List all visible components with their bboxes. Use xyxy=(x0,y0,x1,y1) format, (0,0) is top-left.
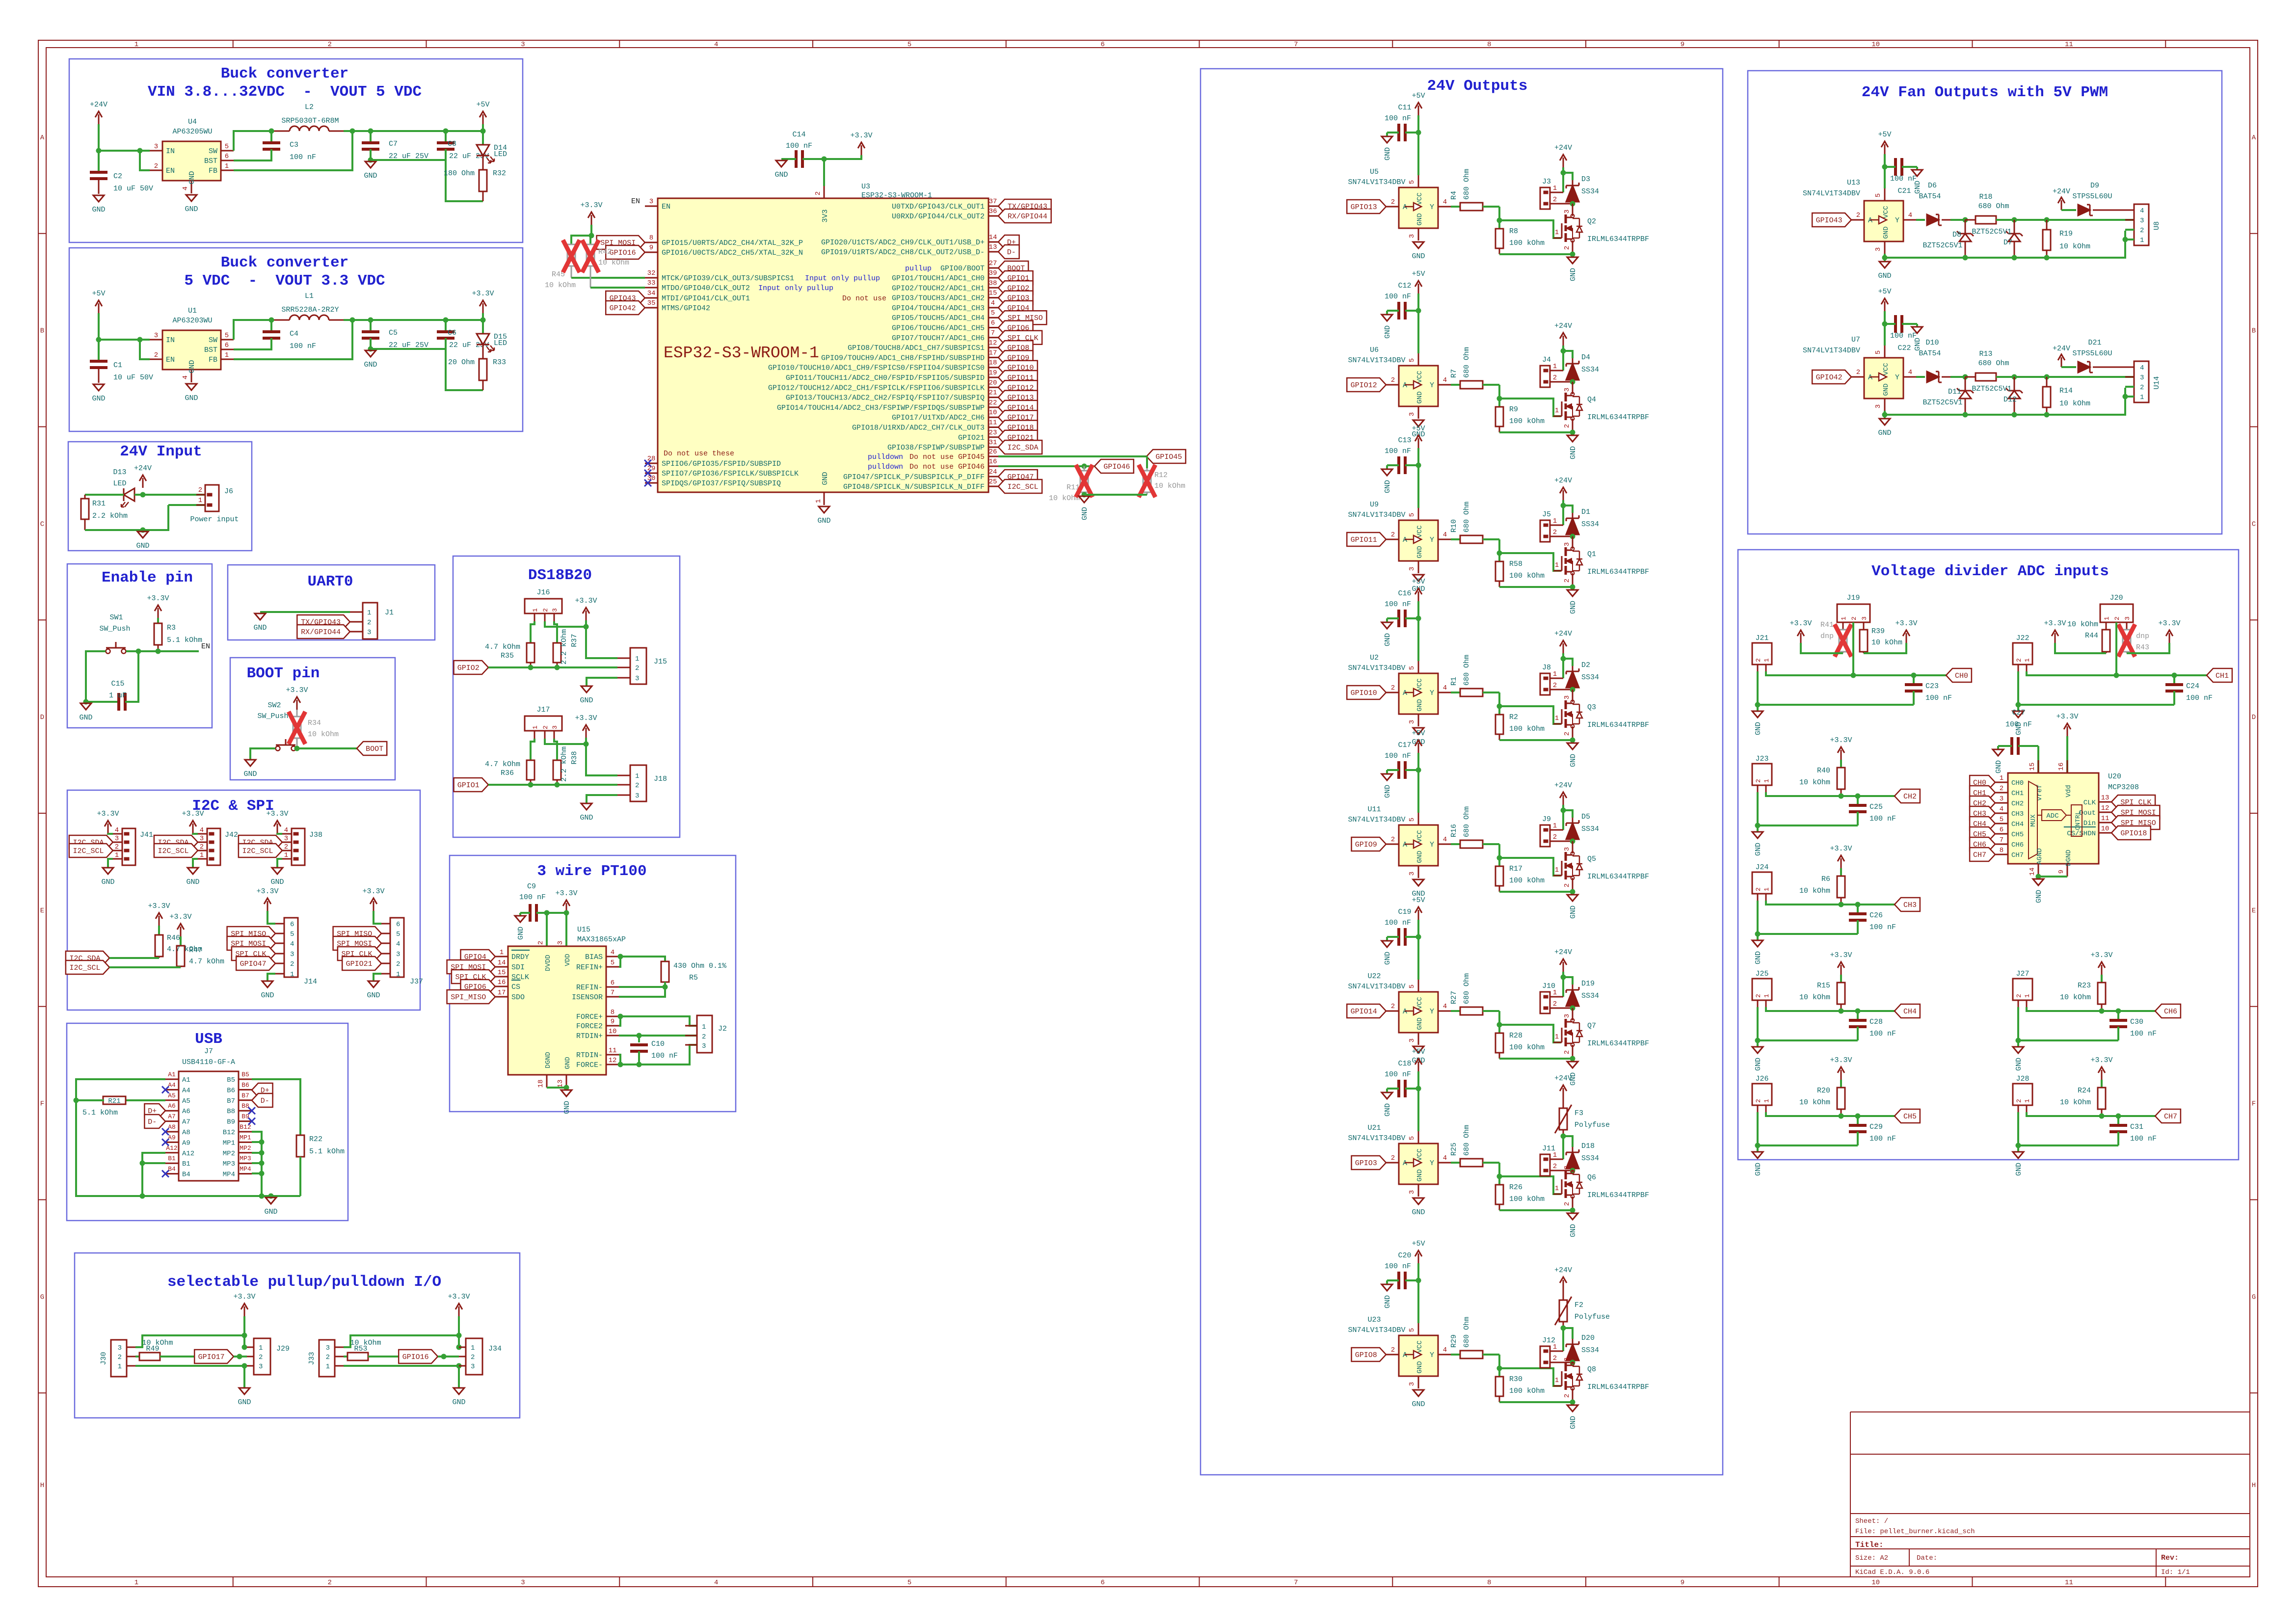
svg-text:File: pellet_burner.kicad_sch: File: pellet_burner.kicad_sch xyxy=(1855,1528,1975,1536)
global label I2C_SCL xyxy=(998,479,1042,493)
svg-text:SW_Push: SW_Push xyxy=(99,625,130,633)
power flag +3.3V xyxy=(458,1306,460,1316)
svg-text:R4: R4 xyxy=(1450,191,1458,200)
ground xyxy=(1413,420,1424,426)
wire xyxy=(1417,293,1419,353)
svg-text:A: A xyxy=(1403,381,1407,390)
svg-text:R41: R41 xyxy=(1820,621,1834,629)
svg-text:GPIO10/TOUCH10/ADC1_CH9/FSPICS: GPIO10/TOUCH10/ADC1_CH9/FSPICS0/FSPIIO4/… xyxy=(768,364,985,372)
svg-text:ADC: ADC xyxy=(2046,812,2058,820)
ground xyxy=(272,868,283,874)
junction xyxy=(637,1033,642,1038)
svg-text:R21: R21 xyxy=(108,1097,120,1105)
svg-text:2: 2 xyxy=(1755,887,1762,891)
junction xyxy=(1570,1208,1575,1213)
regulator U1 xyxy=(162,330,221,370)
pin 12 GPIO8 xyxy=(988,347,998,348)
wire gnd rail xyxy=(1885,388,2125,415)
connector J2 xyxy=(697,1015,712,1053)
svg-text:10 kOhm: 10 kOhm xyxy=(1799,778,1830,787)
svg-text:1: 1 xyxy=(471,1344,475,1352)
junction xyxy=(822,157,827,162)
pulldown resistor R11 dnp xyxy=(1084,466,1085,471)
svg-text:5: 5 xyxy=(1874,350,1882,354)
svg-text:C9: C9 xyxy=(527,882,536,891)
power flag +3.3V xyxy=(296,700,298,710)
global label SPI_MOSI xyxy=(333,936,381,950)
svg-text:J4: J4 xyxy=(1542,356,1551,364)
wire xyxy=(109,957,159,959)
svg-text:R6: R6 xyxy=(1821,875,1830,883)
pin 11 GPIO18 xyxy=(988,426,998,428)
connector J14 xyxy=(284,918,298,977)
regulator U4 xyxy=(162,141,221,181)
global label CH0 xyxy=(1946,668,1972,682)
svg-text:1: 1 xyxy=(1763,658,1770,662)
svg-text:GPIO17/U1TXD/ADC2_CH6: GPIO17/U1TXD/ADC2_CH6 xyxy=(892,414,985,422)
svg-text:3: 3 xyxy=(1861,616,1868,620)
svg-text:17: 17 xyxy=(498,989,506,997)
svg-text:GND: GND xyxy=(1569,1416,1577,1429)
diode D21 STPS5L60U xyxy=(2078,362,2090,372)
svg-text:GPIO20/U1CTS/ADC2_CH9/CLK_OUT1: GPIO20/U1CTS/ADC2_CH9/CLK_OUT1/USB_D+ xyxy=(821,239,985,247)
svg-text:+5V: +5V xyxy=(1878,131,1891,139)
svg-text:2: 2 xyxy=(1553,374,1557,382)
svg-text:GPIO7/TOUCH7/ADC1_CH6: GPIO7/TOUCH7/ADC1_CH6 xyxy=(892,334,985,343)
svg-text:D5: D5 xyxy=(1581,813,1590,821)
svg-text:C3: C3 xyxy=(290,141,298,149)
svg-text:10 kOhm: 10 kOhm xyxy=(2060,1098,2091,1107)
svg-text:2: 2 xyxy=(1850,616,1858,620)
svg-text:1: 1 xyxy=(532,725,539,729)
global label D- xyxy=(252,1093,273,1107)
junction xyxy=(1416,616,1421,621)
wire xyxy=(2018,1007,2118,1040)
svg-text:SN74LV1T34DBV: SN74LV1T34DBV xyxy=(1348,511,1405,519)
junction xyxy=(1570,889,1575,895)
ground xyxy=(565,1088,567,1090)
svg-text:2: 2 xyxy=(259,1354,263,1361)
global label RX/GPIO44 xyxy=(998,209,1051,223)
mosfet Q4 IRLML6344TRPBF xyxy=(1572,382,1574,394)
wire xyxy=(368,1356,399,1357)
wire xyxy=(1417,920,1419,980)
power flag +24V xyxy=(142,478,144,488)
svg-text:MCP3208: MCP3208 xyxy=(2108,783,2139,792)
svg-text:2: 2 xyxy=(1755,994,1762,998)
wire xyxy=(1563,659,1573,666)
svg-text:5: 5 xyxy=(908,1579,911,1587)
svg-text:D: D xyxy=(40,714,44,721)
svg-text:U6: U6 xyxy=(1370,346,1379,354)
svg-text:25: 25 xyxy=(989,478,997,486)
svg-text:7: 7 xyxy=(1294,41,1298,49)
svg-text:C15: C15 xyxy=(111,680,124,688)
wire xyxy=(252,1132,262,1196)
connector J1 xyxy=(363,603,377,639)
svg-text:U14: U14 xyxy=(2153,376,2161,389)
svg-text:1: 1 xyxy=(1555,1185,1559,1193)
svg-text:GPIO47/SPICLK_P/SUBSPICLK_P_DI: GPIO47/SPICLK_P/SUBSPICLK_P_DIFF xyxy=(843,473,985,481)
svg-text:3: 3 xyxy=(118,1344,122,1352)
ground xyxy=(1386,133,1388,136)
svg-text:11: 11 xyxy=(609,1047,617,1055)
svg-text:100 nF: 100 nF xyxy=(2005,720,2032,729)
resistor R24 10 kOhm xyxy=(2101,1080,2103,1088)
svg-text:SRR5228A-2R2Y: SRR5228A-2R2Y xyxy=(281,306,339,314)
no-connect crosses xyxy=(162,1086,169,1093)
svg-text:R32: R32 xyxy=(493,169,506,178)
svg-text:R47: R47 xyxy=(189,946,202,955)
svg-text:GPIO1/TOUCH1/ADC1_CH0: GPIO1/TOUCH1/ADC1_CH0 xyxy=(892,274,985,283)
pin 7 ISENSOR xyxy=(606,996,619,998)
svg-text:3: 3 xyxy=(1408,234,1416,238)
connector J38 xyxy=(292,828,305,865)
no-connect xyxy=(644,460,651,467)
svg-text:R53: R53 xyxy=(354,1345,367,1353)
global label CH3 xyxy=(1895,898,1920,911)
wire xyxy=(374,974,381,981)
svg-text:A9: A9 xyxy=(168,1134,176,1141)
svg-text:IRLML6344TRPBF: IRLML6344TRPBF xyxy=(1587,721,1649,729)
wire xyxy=(234,1356,247,1357)
svg-text:A: A xyxy=(2252,134,2256,142)
svg-text:3: 3 xyxy=(1408,1190,1416,1194)
svg-text:Q5: Q5 xyxy=(1587,855,1596,863)
svg-text:AP63203WU: AP63203WU xyxy=(172,317,212,325)
svg-text:1: 1 xyxy=(290,971,294,979)
global label SPI_MOSI xyxy=(597,236,645,249)
wire xyxy=(586,738,617,775)
svg-text:680 Ohm: 680 Ohm xyxy=(1463,347,1471,378)
svg-text:4: 4 xyxy=(611,949,614,957)
ground xyxy=(1413,575,1424,581)
power flag +5V xyxy=(1418,106,1419,115)
svg-text:17: 17 xyxy=(989,349,997,357)
svg-text:A: A xyxy=(1403,1351,1407,1359)
svg-text:100 nF: 100 nF xyxy=(519,893,546,902)
svg-text:11: 11 xyxy=(989,419,997,427)
svg-text:R20: R20 xyxy=(1817,1087,1830,1095)
wire xyxy=(2038,876,2067,878)
wire xyxy=(1498,207,1500,220)
svg-text:3V3: 3V3 xyxy=(821,209,829,222)
svg-text:15: 15 xyxy=(2029,763,2036,771)
svg-text:10 uF 50V: 10 uF 50V xyxy=(113,185,153,193)
ground xyxy=(262,981,273,987)
svg-text:GPIO42: GPIO42 xyxy=(1816,373,1842,382)
wire xyxy=(2061,209,2076,211)
resistor R25 680 Ohm xyxy=(1451,1162,1460,1164)
junction xyxy=(2116,1009,2121,1014)
svg-text:R13: R13 xyxy=(1979,350,1992,358)
wire GPIO46 net xyxy=(998,465,1084,467)
svg-text:10 kOhm: 10 kOhm xyxy=(2059,242,2090,251)
global label SPI_CLK xyxy=(452,970,495,984)
svg-text:BZT52C5V1: BZT52C5V1 xyxy=(1972,228,2011,236)
svg-text:GPIO13: GPIO13 xyxy=(1351,203,1377,212)
wire xyxy=(446,160,483,201)
wire xyxy=(2037,746,2039,773)
svg-text:5: 5 xyxy=(290,931,294,938)
svg-text:B6: B6 xyxy=(227,1087,235,1094)
svg-text:1: 1 xyxy=(635,772,639,780)
wire xyxy=(371,348,446,350)
global label SPI_MISO xyxy=(447,990,495,1004)
wire xyxy=(277,833,282,834)
pin 15 SCLK xyxy=(495,976,508,978)
wire xyxy=(1498,1163,1500,1176)
svg-text:SS34: SS34 xyxy=(1581,1154,1599,1163)
capacitor C5 xyxy=(370,320,372,331)
svg-text:GND: GND xyxy=(253,624,267,632)
junction xyxy=(1855,902,1861,907)
svg-text:Q3: Q3 xyxy=(1587,703,1596,712)
svg-text:2: 2 xyxy=(1391,376,1395,384)
power flag +3.3V xyxy=(180,927,182,936)
junction xyxy=(140,1161,145,1166)
svg-text:3: 3 xyxy=(1408,412,1416,416)
svg-text:A: A xyxy=(1403,1159,1407,1168)
svg-text:1: 1 xyxy=(1553,822,1557,830)
ground xyxy=(581,686,592,692)
svg-text:+3.3V: +3.3V xyxy=(147,594,169,603)
pin 20 GPIO12 xyxy=(988,387,998,388)
svg-text:MP1: MP1 xyxy=(223,1139,235,1147)
wire xyxy=(1417,1263,1419,1323)
svg-text:GND: GND xyxy=(2015,1163,2023,1176)
wire xyxy=(296,747,357,749)
wire xyxy=(140,151,150,170)
power flag +24V xyxy=(1563,962,1564,972)
pin 32 MTCK xyxy=(645,277,658,279)
junction xyxy=(584,742,589,747)
global label CH7 xyxy=(2155,1109,2181,1123)
svg-text:SN74LV1T34DBV: SN74LV1T34DBV xyxy=(1348,1134,1405,1143)
junction xyxy=(242,1363,247,1369)
power flag +24V xyxy=(1563,336,1564,346)
svg-text:2: 2 xyxy=(1553,196,1557,204)
junction xyxy=(1855,794,1861,799)
svg-text:32: 32 xyxy=(647,269,656,277)
svg-text:SN74LV1T34DBV: SN74LV1T34DBV xyxy=(1348,356,1405,365)
pin 11 RTDIN- xyxy=(606,1054,619,1056)
svg-text:J2: J2 xyxy=(718,1025,727,1033)
svg-text:100 nF: 100 nF xyxy=(651,1052,678,1060)
svg-text:3: 3 xyxy=(1563,1357,1571,1361)
svg-text:18: 18 xyxy=(989,359,997,367)
junction xyxy=(555,782,560,788)
svg-text:2: 2 xyxy=(1856,369,1860,376)
pin 3 CH2 xyxy=(1995,802,2008,804)
svg-text:2: 2 xyxy=(635,782,639,790)
svg-text:4: 4 xyxy=(396,940,400,948)
svg-text:Y: Y xyxy=(1430,203,1434,212)
svg-text:EN: EN xyxy=(166,356,175,364)
pin 23 GPIO21 xyxy=(988,436,998,438)
capacitor C24 100 nF xyxy=(2173,675,2175,684)
svg-text:GPIO11: GPIO11 xyxy=(1351,536,1377,544)
capacitor C30 100 nF xyxy=(2117,1011,2119,1020)
svg-text:GND: GND xyxy=(1754,722,1762,735)
svg-text:4: 4 xyxy=(182,186,189,190)
svg-text:VCC: VCC xyxy=(1416,192,1424,205)
wire xyxy=(1572,240,1574,254)
svg-text:100 nF: 100 nF xyxy=(2130,1135,2157,1143)
svg-text:2: 2 xyxy=(2015,1099,2023,1103)
svg-text:C11: C11 xyxy=(1398,104,1411,112)
section box BOOT pin xyxy=(230,658,395,780)
resistor R28 100 kOhm xyxy=(1498,1025,1500,1033)
svg-text:2: 2 xyxy=(2015,658,2023,662)
svg-text:1: 1 xyxy=(115,851,119,859)
connector J37 xyxy=(390,918,404,977)
svg-text:5: 5 xyxy=(908,41,911,49)
svg-text:C21: C21 xyxy=(1897,187,1911,195)
svg-text:1: 1 xyxy=(225,162,229,170)
svg-text:R35: R35 xyxy=(501,652,514,660)
svg-text:GND: GND xyxy=(564,1057,572,1069)
svg-text:Polyfuse: Polyfuse xyxy=(1575,1313,1610,1321)
wire xyxy=(1084,465,1095,467)
power flag +5V xyxy=(98,303,100,313)
section box Voltage divider ADC inputs xyxy=(1738,550,2239,1160)
wire xyxy=(1563,351,1573,358)
global label GPIO42 xyxy=(1812,370,1851,384)
ground xyxy=(1752,1047,1763,1053)
svg-text:+3.3V: +3.3V xyxy=(97,810,119,818)
wire xyxy=(2014,219,2134,221)
svg-text:VCC: VCC xyxy=(1882,206,1890,218)
junction xyxy=(1416,308,1421,314)
svg-text:Q8: Q8 xyxy=(1587,1365,1596,1374)
svg-text:3: 3 xyxy=(1563,388,1571,392)
wire xyxy=(234,131,352,170)
wire xyxy=(2017,1040,2019,1047)
svg-text:IRLML6344TRPBF: IRLML6344TRPBF xyxy=(1587,873,1649,881)
diode D2 SS34 xyxy=(1572,666,1574,690)
wire xyxy=(2125,396,2134,398)
svg-text:A: A xyxy=(1403,203,1407,212)
svg-text:2: 2 xyxy=(471,1354,475,1361)
pin 1 CH0 xyxy=(1995,782,2008,783)
svg-text:GND: GND xyxy=(1384,785,1392,798)
global label GPIO8 xyxy=(998,341,1033,354)
svg-text:10 kOhm: 10 kOhm xyxy=(2059,399,2090,408)
svg-text:J24: J24 xyxy=(1755,863,1768,872)
svg-text:VDD: VDD xyxy=(564,954,572,966)
wire xyxy=(1757,1040,1759,1047)
power flag +24V xyxy=(1563,1280,1564,1290)
svg-text:GND: GND xyxy=(243,770,257,778)
svg-text:+3.3V: +3.3V xyxy=(2044,619,2066,628)
ground xyxy=(1386,311,1388,315)
global label GPIO10 xyxy=(1347,686,1386,699)
wire xyxy=(86,651,118,702)
wire xyxy=(267,974,275,981)
svg-text:GPIO9: GPIO9 xyxy=(1355,841,1377,849)
power flag +3.3V xyxy=(1841,750,1842,760)
junction xyxy=(140,528,146,533)
junction xyxy=(1570,252,1575,257)
svg-text:5: 5 xyxy=(225,143,229,151)
svg-text:D10: D10 xyxy=(1925,339,1939,347)
resistor R44 10 kOhm xyxy=(2102,630,2110,652)
svg-text:MP4: MP4 xyxy=(240,1166,251,1173)
svg-text:1: 1 xyxy=(200,851,204,859)
svg-text:R9: R9 xyxy=(1509,405,1518,414)
resistor R31 xyxy=(84,495,86,499)
svg-text:4: 4 xyxy=(2000,805,2003,813)
resistor R49 xyxy=(135,1356,139,1357)
svg-text:U1: U1 xyxy=(188,307,197,315)
wire xyxy=(2027,1112,2155,1116)
svg-text:2: 2 xyxy=(1755,779,1762,783)
svg-text:GND: GND xyxy=(367,991,380,1000)
svg-text:GND: GND xyxy=(1569,601,1577,614)
ground xyxy=(1386,465,1388,469)
power flag +5V xyxy=(1418,591,1419,601)
junction xyxy=(1570,379,1575,385)
global label D+ xyxy=(998,235,1019,249)
svg-text:A4: A4 xyxy=(168,1081,176,1089)
junction xyxy=(481,318,486,323)
svg-text:R33: R33 xyxy=(493,358,506,367)
svg-text:J1: J1 xyxy=(385,609,394,617)
svg-text:5: 5 xyxy=(611,959,614,967)
wire xyxy=(374,911,381,924)
svg-text:680 Ohm: 680 Ohm xyxy=(1978,359,2009,368)
pin 26 GPIO45 xyxy=(988,456,998,457)
capacitor C12 xyxy=(1397,302,1400,319)
svg-text:4: 4 xyxy=(1443,1154,1447,1162)
svg-text:GPIO12/TOUCH12/ADC2_CH1/FSPICL: GPIO12/TOUCH12/ADC2_CH1/FSPICLK/FSPIIO6/… xyxy=(768,384,985,392)
svg-text:CH7: CH7 xyxy=(2011,851,2024,859)
svg-text:3: 3 xyxy=(2140,217,2144,225)
svg-text:GND: GND xyxy=(185,205,198,213)
svg-text:9: 9 xyxy=(649,244,653,252)
svg-text:15: 15 xyxy=(498,969,506,977)
wire xyxy=(458,1346,460,1348)
svg-text:BIAS: BIAS xyxy=(585,953,603,961)
power flag +5V xyxy=(1418,1062,1419,1071)
diode D18 SS34 xyxy=(1572,1147,1574,1171)
global label CH3 xyxy=(1970,806,1995,820)
svg-text:C1: C1 xyxy=(113,361,122,370)
wire xyxy=(1757,934,1759,940)
junction xyxy=(1497,1366,1502,1371)
junction xyxy=(140,492,146,498)
svg-text:GND: GND xyxy=(1914,338,1922,351)
pin 7 GPIO7 xyxy=(988,337,998,338)
svg-text:B4: B4 xyxy=(182,1171,190,1179)
svg-text:4: 4 xyxy=(714,41,718,49)
pin 4 BIAS xyxy=(606,956,619,958)
svg-text:GPIO9/TOUCH9/ADC1_CH8/FSPIHD/S: GPIO9/TOUCH9/ADC1_CH8/FSPIHD/SUBSPIHD xyxy=(821,354,985,362)
svg-text:3: 3 xyxy=(635,792,639,800)
svg-text:A5: A5 xyxy=(182,1097,190,1105)
ground xyxy=(1997,746,1999,749)
svg-text:A8: A8 xyxy=(182,1129,190,1137)
power flag +5V xyxy=(1418,1253,1419,1263)
svg-text:C8: C8 xyxy=(448,140,456,148)
junction xyxy=(268,1194,274,1199)
diode D4 SS34 xyxy=(1572,358,1574,382)
svg-text:D: D xyxy=(2252,714,2256,721)
svg-text:SN74LV1T34DBV: SN74LV1T34DBV xyxy=(1803,346,1860,355)
power flag +5V xyxy=(1418,743,1419,753)
svg-text:2: 2 xyxy=(814,191,822,195)
